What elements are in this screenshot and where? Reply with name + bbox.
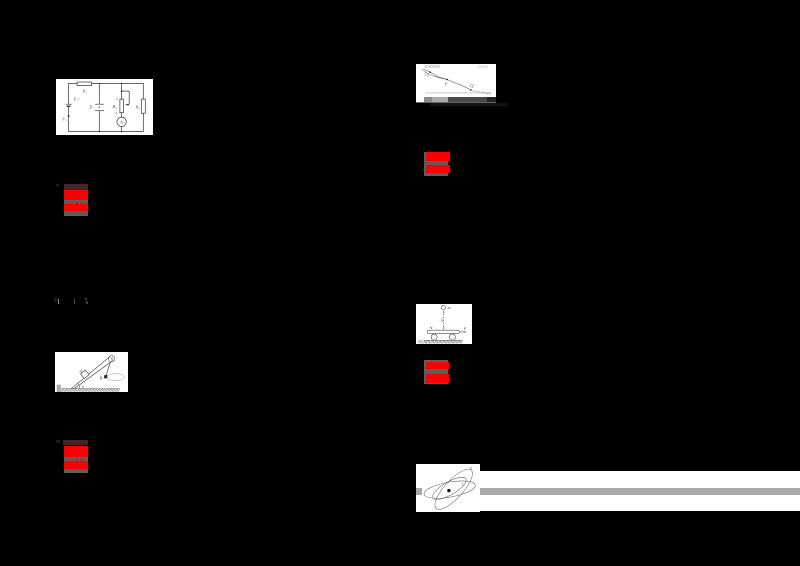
incline upper edge: [71, 357, 109, 389]
orbit ellipse wide: [423, 478, 477, 502]
faint caption text remnants: [430, 103, 508, 106]
wire right: [142, 84, 144, 100]
figure: atom orbits (bottom-right white box): [416, 464, 480, 512]
selected line band (white, to right edge): [479, 471, 800, 511]
arrowhead up: [443, 311, 444, 313]
node bottom P: [99, 131, 101, 133]
wire left upper: [68, 84, 70, 105]
selection gray bar left of atom: [416, 488, 423, 495]
resistor R3: [141, 99, 145, 113]
svg-text:R3: R3: [135, 105, 141, 111]
svg-text:a: a: [116, 97, 118, 101]
svg-text:P: P: [444, 82, 448, 87]
svg-text:m: m: [448, 305, 451, 310]
wire ammeter to bottom: [121, 127, 123, 132]
slope arc O to P: [424, 71, 447, 79]
figure: incline with pulley (left lower white box): [55, 352, 128, 392]
ground hatch: [424, 341, 463, 344]
svg-text:R1: R1: [82, 89, 88, 95]
switch S: [68, 115, 69, 121]
smudge top-left: [424, 65, 440, 68]
highlight ellipse around B: [107, 374, 125, 381]
arrow F right: [460, 331, 466, 333]
smudge top-right: [478, 65, 488, 68]
answer block 3 (right top, red bars on gray): [424, 152, 448, 176]
ball m: [441, 306, 445, 310]
ground hatch: [61, 389, 120, 392]
svg-text:A: A: [78, 369, 82, 374]
gray block bottom-left: [57, 385, 61, 392]
capacitor P branch wire: [98, 84, 100, 105]
svg-text:P: P: [89, 104, 93, 109]
svg-text:R2: R2: [111, 104, 117, 110]
faint equation remnants (left column): [58, 299, 59, 304]
orbit ellipse middle: [430, 473, 469, 503]
wire left middle: [68, 106, 70, 115]
string pulley to B: [106, 362, 111, 376]
node slider tap: [121, 90, 123, 92]
ball at P: [446, 79, 448, 81]
caption strip below hill figure: [424, 97, 432, 102]
faint green speck: [56, 440, 60, 443]
resistor R1: [77, 82, 92, 86]
svg-text:E r: E r: [73, 97, 80, 102]
capacitor P: [95, 104, 104, 111]
rheostat R2: [120, 99, 124, 113]
wire left lower: [68, 121, 70, 131]
svg-text:b: b: [116, 111, 118, 115]
nucleus dot: [447, 489, 450, 492]
ball at O: [429, 71, 431, 73]
node bottom R2: [121, 131, 123, 133]
figure: ball above cart (right middle white box): [416, 304, 472, 344]
wheel right: [449, 334, 455, 340]
slope main line O to Q: [424, 69, 471, 90]
svg-text:B: B: [100, 375, 103, 380]
incline lower edge: [74, 361, 112, 389]
figure: hill slope O-P-Q (top-right white box): [416, 64, 496, 103]
wire R2 to ammeter: [121, 113, 123, 117]
answer block 4 (right middle, red bars on gray): [424, 360, 448, 384]
ammeter A: [117, 117, 126, 126]
wire top: [69, 83, 144, 85]
ground line: [424, 339, 463, 341]
ball at Q: [470, 89, 472, 91]
arrowhead down: [443, 328, 444, 330]
wire bottom: [69, 130, 144, 132]
figure: circuit schematic (top-left white box): [56, 79, 153, 135]
plank: [427, 330, 459, 333]
selection gray bar right: [480, 488, 800, 495]
battery E r: [66, 104, 72, 106]
rheostat R2 branch wire: [121, 84, 123, 100]
svg-text:θ: θ: [82, 385, 84, 389]
pulley mount cross: [110, 357, 114, 361]
lower margin of figure box: [416, 96, 496, 102]
ground line: [61, 388, 120, 390]
small hook at O start: [422, 69, 425, 71]
block B (hanging): [104, 375, 107, 378]
svg-text:F: F: [463, 326, 467, 331]
orbit ellipse steep: [430, 464, 478, 515]
svg-text:h: h: [441, 317, 443, 322]
smudge bottom-left: [418, 340, 423, 344]
answer block 1 (left top, red bars on gray): [64, 184, 89, 190]
dashed runout after Q: [473, 91, 491, 94]
slider arrowhead: [126, 104, 128, 106]
answer block 2 (left bottom, red bars on gray): [63, 440, 88, 446]
rheostat slider wire: [122, 91, 130, 105]
ground line: [425, 92, 491, 93]
node top R2: [121, 83, 123, 85]
node top P: [99, 83, 101, 85]
wheel left: [431, 334, 437, 340]
dashed drop line h: [443, 311, 445, 328]
block A on incline: [81, 370, 89, 378]
pulley: [109, 356, 115, 362]
angle arc theta: [78, 384, 80, 389]
